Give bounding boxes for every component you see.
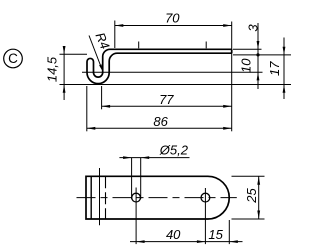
- svg-text:C: C: [8, 51, 18, 66]
- svg-text:14,5: 14,5: [45, 56, 60, 82]
- svg-text:10: 10: [238, 58, 253, 73]
- svg-text:77: 77: [159, 92, 174, 107]
- svg-text:86: 86: [153, 114, 168, 129]
- svg-text:25: 25: [244, 188, 259, 204]
- svg-text:17: 17: [267, 61, 282, 76]
- svg-text:15: 15: [208, 227, 223, 242]
- svg-text:40: 40: [166, 227, 181, 242]
- svg-text:Ø5,2: Ø5,2: [159, 143, 189, 158]
- svg-text:70: 70: [165, 11, 180, 26]
- svg-text:3: 3: [245, 24, 260, 32]
